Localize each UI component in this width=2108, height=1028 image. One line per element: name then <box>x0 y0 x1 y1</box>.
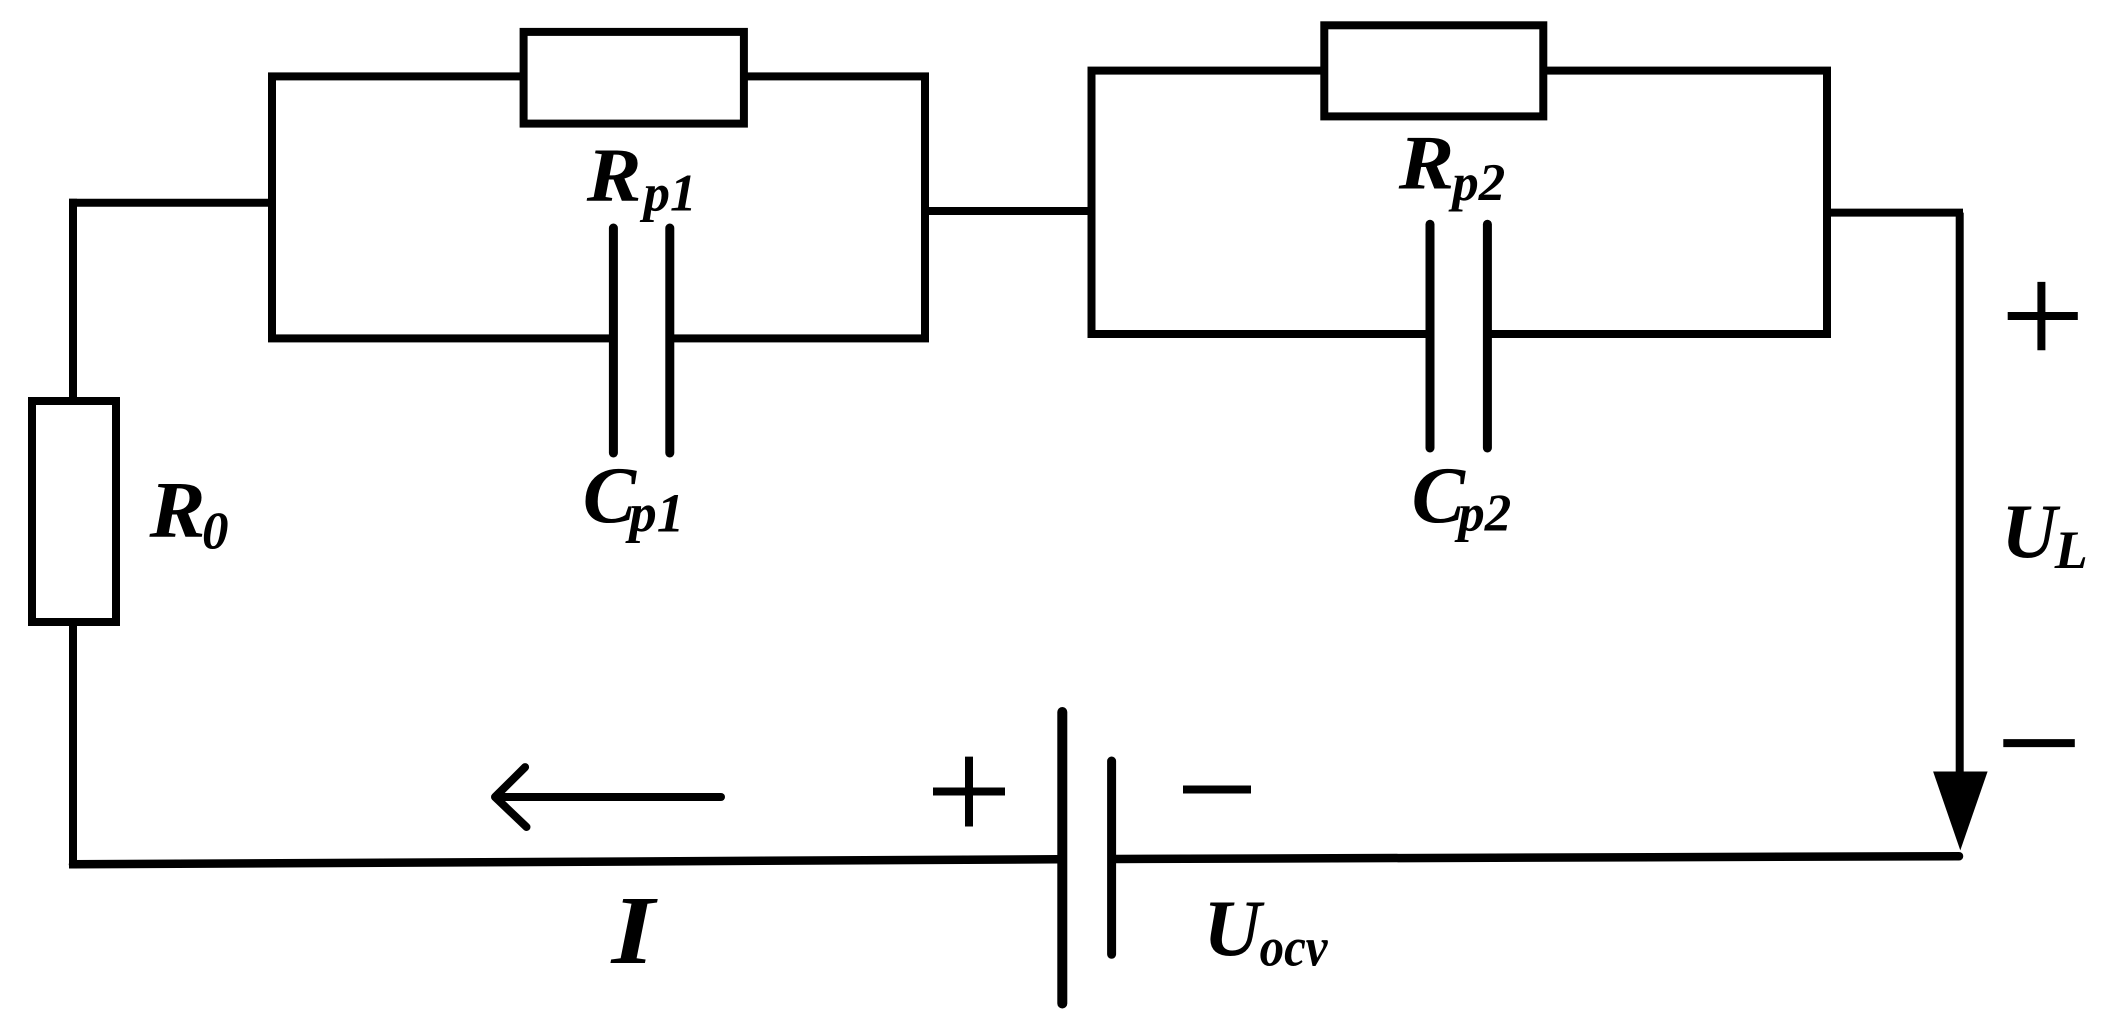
svg-text:R: R <box>148 466 205 555</box>
svg-text:ocv: ocv <box>1260 918 1329 978</box>
svg-text:p2: p2 <box>1448 154 1505 212</box>
svg-text:R: R <box>586 134 642 218</box>
svg-text:0: 0 <box>202 502 229 560</box>
svg-text:p2: p2 <box>1454 485 1511 543</box>
svg-text:U: U <box>1203 885 1265 973</box>
svg-text:I: I <box>609 876 658 985</box>
svg-text:p1: p1 <box>625 482 684 543</box>
svg-text:R: R <box>1398 121 1455 206</box>
svg-text:p1: p1 <box>640 165 697 223</box>
svg-text:L: L <box>2054 520 2088 580</box>
svg-text:U: U <box>2002 488 2061 574</box>
